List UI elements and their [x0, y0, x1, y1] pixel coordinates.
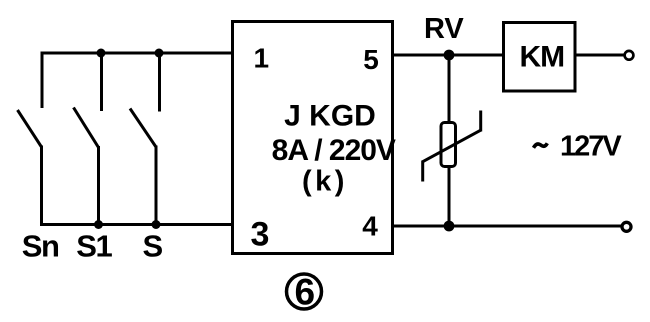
- junction RV bottom: [444, 221, 455, 232]
- svg-text:6: 6: [295, 272, 316, 313]
- figure number 6: [287, 272, 322, 313]
- svg-text:8A / 220V: 8A / 220V: [272, 134, 396, 167]
- switch S: [130, 53, 160, 226]
- svg-text:S: S: [143, 228, 164, 263]
- wire top bus left: [41, 52, 233, 55]
- svg-text:3: 3: [251, 216, 270, 254]
- terminal top: [625, 51, 634, 60]
- wire bottom bus left: [40, 223, 232, 226]
- relay box J KGD: [233, 22, 393, 254]
- wire KM to terminal: [575, 54, 625, 57]
- svg-text:Sn: Sn: [22, 228, 59, 263]
- svg-text:KM: KM: [519, 41, 564, 74]
- wire pin5 to KM: [392, 54, 503, 57]
- junction bottom S1: [94, 220, 103, 229]
- varistor RV body: [423, 111, 481, 182]
- switch Sn: [18, 52, 43, 227]
- svg-text:J KGD: J KGD: [284, 99, 376, 132]
- label ~ 127V: [534, 131, 623, 163]
- svg-text:5: 5: [363, 44, 379, 75]
- svg-text:(k): (k): [302, 166, 348, 198]
- switch S1: [74, 53, 102, 226]
- node RV junction top: [444, 50, 455, 61]
- svg-text:1: 1: [254, 43, 270, 74]
- terminal bottom: [622, 222, 631, 231]
- wire bottom bus right: [392, 225, 622, 228]
- junction bottom S: [152, 220, 161, 229]
- junction top S1: [97, 49, 106, 58]
- contactor coil KM box: [504, 23, 576, 92]
- wire RV top: [448, 55, 451, 122]
- svg-text:127V: 127V: [560, 131, 622, 163]
- junction top S: [155, 49, 164, 58]
- svg-text:RV: RV: [424, 13, 464, 45]
- svg-text:S1: S1: [76, 228, 112, 263]
- svg-text:4: 4: [362, 211, 378, 242]
- wire RV bottom: [448, 167, 451, 226]
